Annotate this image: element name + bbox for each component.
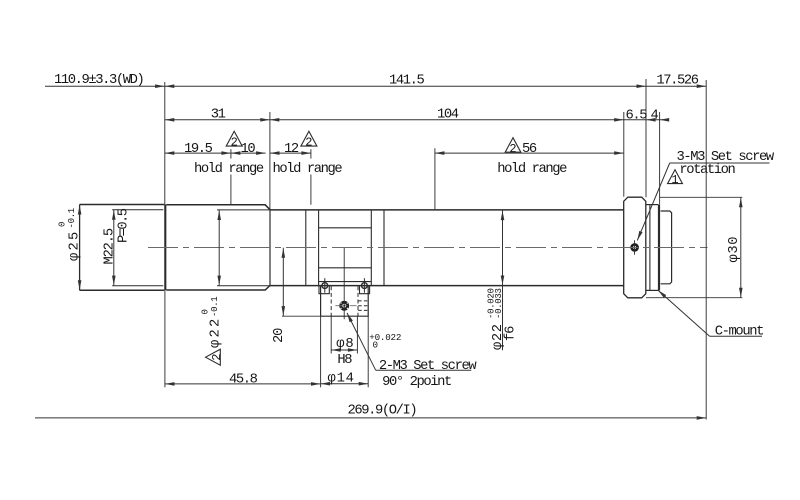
svg-text:rotation: rotation (679, 162, 735, 178)
svg-text:hold range: hold range (497, 161, 567, 177)
svg-text:17.526: 17.526 (656, 73, 698, 88)
svg-text:56: 56 (522, 142, 537, 157)
svg-text:H8: H8 (337, 353, 352, 368)
svg-text:20: 20 (272, 328, 287, 343)
svg-text:104: 104 (437, 108, 459, 123)
svg-text:31: 31 (211, 108, 226, 123)
svg-text:φ30: φ30 (727, 236, 742, 263)
svg-text:90° 2point: 90° 2point (382, 374, 451, 390)
svg-text:2: 2 (305, 136, 312, 150)
svg-text:φ25: φ25 (68, 230, 83, 261)
svg-text:269.9(O/I): 269.9(O/I) (348, 403, 417, 419)
svg-text:f6: f6 (503, 326, 519, 341)
svg-text:19.5: 19.5 (184, 142, 213, 157)
svg-text:φ14: φ14 (328, 372, 355, 387)
svg-text:hold range: hold range (273, 161, 343, 177)
svg-text:110.9±3.3(WD): 110.9±3.3(WD) (54, 72, 143, 88)
svg-text:P=0.5: P=0.5 (117, 208, 132, 243)
svg-text:1: 1 (671, 173, 678, 187)
svg-text:0: 0 (373, 340, 378, 351)
svg-text:M22.5: M22.5 (102, 228, 117, 264)
svg-text:-0.1: -0.1 (67, 208, 77, 228)
svg-text:0: 0 (201, 309, 211, 314)
svg-text:2: 2 (210, 354, 224, 361)
svg-text:φ22: φ22 (208, 317, 223, 348)
svg-text:2-M3 Set screw: 2-M3 Set screw (379, 359, 477, 374)
svg-text:-0.033: -0.033 (494, 288, 504, 319)
svg-text:4: 4 (651, 108, 659, 123)
svg-text:C-mount: C-mount (715, 324, 763, 339)
svg-text:2: 2 (231, 136, 238, 150)
svg-text:6.5: 6.5 (626, 108, 648, 123)
svg-text:10: 10 (241, 142, 256, 157)
svg-text:hold range: hold range (194, 161, 264, 177)
svg-text:φ8: φ8 (336, 337, 354, 352)
svg-text:0: 0 (57, 222, 67, 227)
svg-text:12: 12 (284, 142, 299, 157)
svg-text:2: 2 (509, 142, 516, 156)
svg-text:-0.1: -0.1 (210, 297, 220, 317)
svg-text:45.8: 45.8 (229, 373, 258, 388)
svg-text:141.5: 141.5 (389, 73, 425, 88)
